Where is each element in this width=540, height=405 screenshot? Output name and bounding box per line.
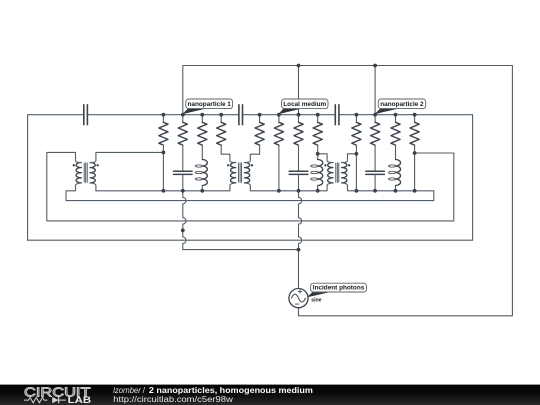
svg-text:http://circuitlab.com/c5er98w: http://circuitlab.com/c5er98w <box>113 394 233 404</box>
svg-text:sine: sine <box>311 298 321 304</box>
svg-text:nanoparticle 2: nanoparticle 2 <box>380 101 424 108</box>
svg-text:LAB: LAB <box>68 395 92 405</box>
svg-text:Incident photons: Incident photons <box>313 284 365 291</box>
svg-text:Local medium: Local medium <box>283 101 326 108</box>
svg-text:nanoparticle 1: nanoparticle 1 <box>188 101 232 108</box>
